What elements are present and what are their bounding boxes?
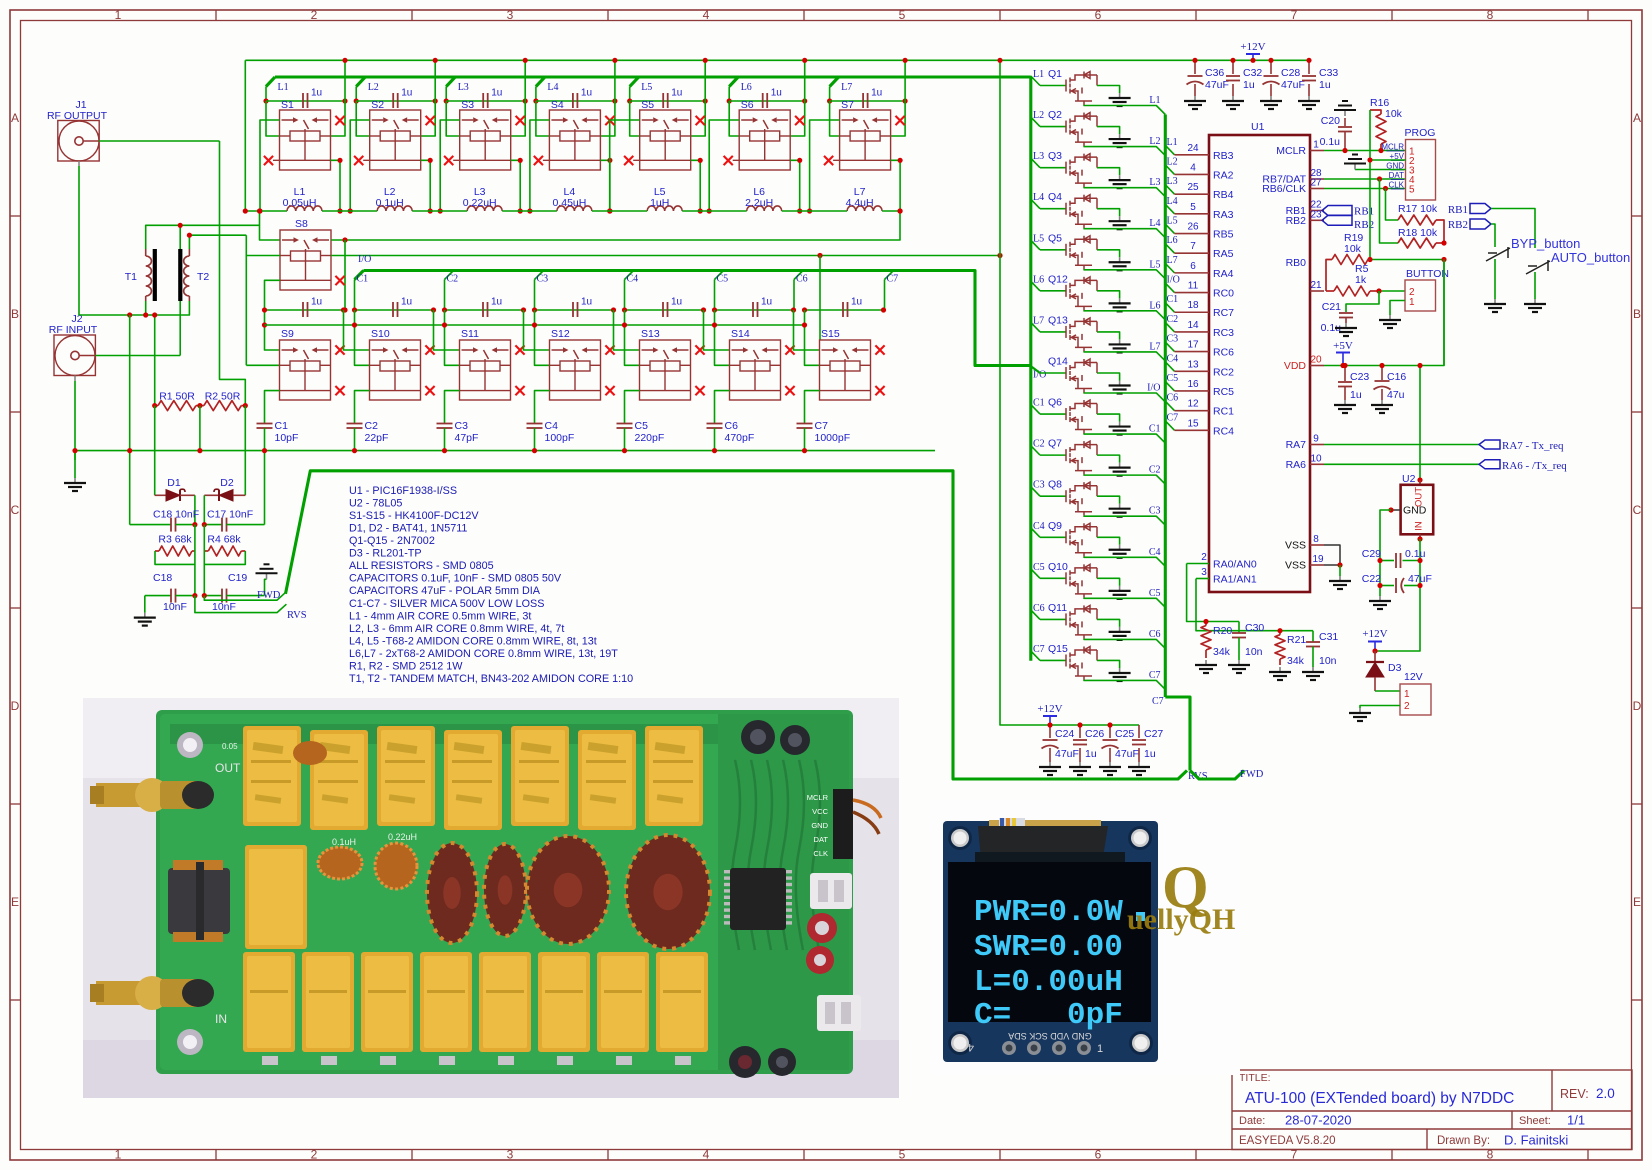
wire gate feed Q15 [1040,659,1066,661]
wire Q2 source to bus diagonal [1084,146,1165,156]
junction C20 on MCLR [1342,148,1347,153]
transformer T2 [180,249,189,301]
photo of PCB board [83,698,899,1098]
svg-text:AUTO_button: AUTO_button [1551,250,1630,265]
capacitor C18 10nF upper [130,518,195,532]
svg-text:I/O: I/O [358,254,371,265]
junction at 1u row x345 [342,307,347,312]
svg-text:1k: 1k [1355,274,1367,286]
wire +5V column from R16 top down to R19 row [1369,110,1371,260]
svg-text:1u: 1u [1085,748,1097,760]
svg-text:IN: IN [1414,521,1425,531]
wire J1 shield stub [78,161,80,166]
inductor L7 4.4uH [847,206,882,211]
junction inductor rail left S7 [807,208,812,213]
svg-text:RA5: RA5 [1213,248,1234,260]
wire gate feed Q3 [1040,167,1066,169]
junction U2 IN [1417,536,1422,541]
svg-text:R18 10k: R18 10k [1398,227,1438,239]
svg-text:L2: L2 [1167,156,1178,167]
svg-text:10n: 10n [1245,646,1263,658]
svg-text:D1, D2 - BAT41, 1N5711: D1, D2 - BAT41, 1N5711 [349,523,467,535]
wire riser R1 left down to D1 [154,315,156,406]
svg-text:0.45uH: 0.45uH [552,197,586,209]
wire gate feed Q12 [1040,290,1066,292]
junction inductor rail right S6 [797,208,802,213]
svg-text:1/1: 1/1 [1567,1113,1585,1128]
wire diagonal bus to pin 25 [1165,185,1174,195]
ground at 12V connector [1349,708,1371,721]
svg-text:RC3: RC3 [1213,327,1234,339]
svg-text:1: 1 [1404,689,1410,700]
capacitor 1u at S10 [393,302,398,317]
svg-text:RB3: RB3 [1213,150,1234,162]
capacitor C32 1u [1226,60,1240,96]
wire riser J2 line to node A [179,225,181,355]
net flag C5 diagonal [715,271,724,280]
ground at Q10 [1109,586,1131,599]
svg-text:I/O: I/O [1167,275,1180,286]
capacitor C4 100pF [527,424,543,429]
svg-text:RA0/AN0: RA0/AN0 [1213,559,1257,571]
junction inductor rail left S1 [257,208,262,213]
ground at C28 [1260,96,1282,109]
relay S10 [370,340,421,400]
svg-text:RC1: RC1 [1213,406,1234,418]
wire +12V column from top rail down to bank [1000,60,1139,725]
svg-text:6: 6 [1095,8,1102,22]
no-connect X right bottom S14 [785,386,794,395]
wire coil feed riser S11 [445,310,460,365]
wire R4 node down [203,525,205,601]
junction 1u left S10 [352,307,357,312]
wire C17 right riser from rail [264,451,266,525]
transistor Q6 2N7002 [1066,400,1097,434]
wire L-bus vertical down gate column [1029,77,1032,661]
wire +12V riser at S3 [511,60,526,136]
svg-text:RB1: RB1 [1354,206,1374,218]
svg-text:1u: 1u [311,297,322,308]
port flag RA7 - Tx_req [1479,440,1500,449]
svg-text:S5: S5 [641,99,654,111]
wire diagonal bus to pin 5 [1165,204,1174,214]
transistor Q4 2N7002 [1066,195,1097,229]
svg-text:C1: C1 [1149,424,1161,435]
relay S5 [633,110,691,170]
frame column numbers bottom [115,1148,1494,1162]
svg-text:D3 - RL201-TP: D3 - RL201-TP [349,548,422,560]
junction C6 on ground rail [712,448,717,453]
wire FWD stub and flag [204,592,286,601]
svg-text:47uF: 47uF [1115,748,1139,760]
svg-text:U2 - 78L05: U2 - 78L05 [349,498,402,510]
wire L-net bus thick [275,75,1031,78]
svg-text:C32: C32 [1243,67,1262,79]
inductor L4 0.45uH [557,206,592,211]
transistor Q12 2N7002 [1066,277,1097,311]
no-connect X right of contact S7 [896,116,905,125]
ground at C23 [1334,400,1356,413]
svg-text:C4: C4 [1033,521,1045,532]
relay S13 [640,340,691,400]
svg-text:L1 - 4mm AIR CORE 0.5mm WIRE,: L1 - 4mm AIR CORE 0.5mm WIRE, 3t [349,610,531,622]
svg-text:1u: 1u [1350,389,1362,401]
wire +12V riser at S1 [331,60,346,136]
pin 6 RA4 wire [1175,272,1210,274]
resistor R21 34k [1275,631,1285,665]
wire inductor rail segments [245,210,900,212]
svg-text:3: 3 [1201,567,1207,578]
wire Q2 to ground [1097,127,1120,135]
svg-text:0.1uH: 0.1uH [376,197,404,209]
svg-text:5: 5 [1190,202,1196,213]
junction C24 [1047,722,1052,727]
ground at C26 [1069,762,1091,775]
junction C33 on rail [1306,58,1311,63]
wire gate diagonal Q9 [1031,528,1040,538]
net flag C1 diagonal [355,271,364,280]
svg-text:L4, L5 -T68-2 AMIDON CORE 0.8m: L4, L5 -T68-2 AMIDON CORE 0.8mm WIRE, 8t… [349,635,597,647]
wire D2 anode down [203,495,205,524]
capacitor 1u at S12 [573,302,578,317]
capacitor C18 10nF lower [145,589,195,603]
connector 12V [1400,684,1431,715]
svg-text:0.05uH: 0.05uH [283,197,317,209]
wire I/O bus diagonal into Q14 gate [1030,366,1040,373]
svg-text:S9: S9 [281,328,294,340]
wire gate diagonal Q6 [1031,405,1040,415]
svg-text:C33: C33 [1319,67,1338,79]
transistor Q9 2N7002 [1066,523,1097,557]
svg-text:T1: T1 [125,271,137,283]
wire coil left feed S4 [536,101,550,136]
wire 1u row S1 [266,100,345,102]
transistor Q1 2N7002 [1066,72,1097,106]
wire Q14 source to bus diagonal [1084,392,1165,402]
relay S14 [730,340,781,400]
svg-text:C7: C7 [1152,696,1164,707]
resistor R3 68k [155,546,195,564]
frame row ticks right [1632,216,1643,1000]
wire gate feed Q1 [1040,85,1066,87]
svg-text:D1: D1 [167,477,181,489]
wire gate feed Q10 [1040,577,1066,579]
wire RA6 to flag [1324,463,1479,465]
svg-text:4.4uH: 4.4uH [846,197,874,209]
svg-text:A: A [11,111,19,125]
capacitor 1u at S2 [393,93,398,108]
switch AUTO_button [1526,260,1550,274]
pin 20 VDD wire [1310,365,1324,367]
svg-text:D. Fainitski: D. Fainitski [1504,1133,1568,1148]
wire S12 bottom to capacitor C4 [535,391,550,423]
pin 9 RA7 wire [1310,444,1324,446]
capacitor 1u at S4 [573,93,578,108]
junction +12V D3 [1372,648,1377,653]
wire PROG GND pin [1355,169,1406,171]
junction coil riser on rail S12 [532,322,537,327]
svg-text:C3: C3 [455,420,469,432]
wire 1u row S9 [265,309,344,311]
wire Q13 source to bus diagonal [1084,351,1165,361]
no-connect X right of contact S2 [426,116,435,125]
wire diagonal bus to pin 16 [1165,381,1174,391]
net flag C6 diagonal [794,271,803,280]
svg-text:OUT: OUT [215,761,241,775]
no-connect X right bottom S15 [875,386,884,395]
junction C26 [1077,722,1082,727]
wire U2 IN stub [1419,534,1421,539]
svg-text:47uF: 47uF [1055,748,1079,760]
svg-text:VSS: VSS [1285,540,1306,552]
no-connect X right bottom S8 [335,276,344,285]
junction R16 bottom on MCLR [1378,148,1383,153]
svg-text:C4: C4 [627,274,639,285]
wire RA0 net down to R20 rail [1187,564,1239,622]
svg-text:Q14: Q14 [1048,355,1068,367]
svg-text:5: 5 [1409,185,1415,196]
svg-text:C21: C21 [1322,301,1341,313]
svg-text:L5: L5 [1033,233,1044,244]
wire Q4 to ground [1097,209,1120,217]
wire RVS stub and flag [195,596,287,613]
wire ground rail left end to J2 shield [74,451,76,460]
junction C28 on rail [1268,58,1273,63]
net flag C4 diagonal [625,271,634,280]
capacitor C5 220pF [617,424,633,429]
junction R20 top [1203,619,1208,624]
transistor Q3 2N7002 [1066,154,1097,188]
svg-text:C5: C5 [1033,562,1045,573]
wire coil feed riser S10 [355,310,370,365]
svg-text:D: D [1633,699,1642,713]
svg-text:C36: C36 [1205,67,1224,79]
wire S8 coil feed from node B [246,255,280,257]
svg-text:C5: C5 [1149,588,1161,599]
wire gate diagonal Q4 [1031,199,1040,209]
junction C16 [1379,363,1384,368]
svg-text:L2, L3 - 6mm AIR CORE 0.8mm WI: L2, L3 - 6mm AIR CORE 0.8mm WIRE, 4t, 7t [349,623,564,635]
wire 1u row S7 [830,100,906,102]
inductor L5 1uH [647,206,682,211]
capacitor 1u at S6 [763,93,768,108]
svg-text:47u: 47u [1387,389,1405,401]
power flag +12V bank [1043,716,1057,725]
svg-text:10nF: 10nF [212,601,236,613]
junction 1u right S3 [523,98,528,103]
svg-text:SWR=0.00: SWR=0.00 [974,930,1123,965]
svg-text:C28: C28 [1281,67,1300,79]
wire bottom exit S2 [421,160,431,211]
capacitor C20 0.1u [1338,118,1352,151]
svg-text:RC5: RC5 [1213,386,1234,398]
svg-text:100pF: 100pF [545,432,575,444]
svg-text:+12V: +12V [1362,628,1387,640]
pin 11 RC0 wire [1175,292,1210,294]
diode D1 [155,489,195,501]
junction +12V on rail [1250,58,1255,63]
svg-text:4: 4 [703,1148,710,1162]
junction R5 right [1376,288,1381,293]
relay S1 [273,110,331,170]
wire PROG +5V pin to +5V column [1370,159,1406,161]
wire gate diagonal Q8 [1031,487,1040,497]
frame column ticks top [216,10,1588,21]
svg-text:C: C [11,503,20,517]
junction R2 right [243,403,248,408]
inductor L1 0.05uH [287,206,322,211]
transformer T1 [146,249,155,301]
svg-text:T2: T2 [197,271,209,283]
wire gate diagonal Q13 [1031,322,1040,332]
junction bottom exit S1 [337,158,342,163]
svg-text:S10: S10 [371,328,390,340]
svg-text:RA4: RA4 [1213,268,1234,280]
svg-text:L6: L6 [1149,300,1160,311]
svg-text:L4: L4 [547,82,558,93]
net flag L5 diagonal [630,77,639,87]
ground at Q2 [1109,134,1131,147]
svg-text:+12V: +12V [1240,41,1265,53]
wire U2 IN down to +12V elbow [1375,539,1420,651]
junction 1u left S7 [827,98,832,103]
svg-text:C5: C5 [635,420,649,432]
junction C25 [1107,722,1112,727]
junction CLK R18 riser [1383,186,1388,191]
wire diagonal bus to pin 18 [1165,303,1174,313]
frame row letters left [11,111,20,909]
svg-text:C4: C4 [1149,547,1161,558]
svg-text:10k: 10k [1385,108,1403,120]
svg-text:12: 12 [1187,399,1199,410]
svg-text:2: 2 [1201,552,1207,563]
svg-text:FWD: FWD [257,590,281,601]
no-connect X right bottom S10 [425,386,434,395]
wire Q15 to ground [1097,660,1120,668]
svg-text:R21: R21 [1287,634,1306,646]
junction inductor rail terminus [243,208,248,213]
junction C4 on ground rail [532,448,537,453]
pin 26 RB5 wire [1175,233,1210,235]
svg-text:6: 6 [1190,261,1196,272]
svg-text:Q7: Q7 [1048,438,1062,450]
relay S15 [820,340,871,400]
wire L1 flag riser to cap row [265,87,267,102]
wire C7 to ground rail [804,428,806,451]
svg-text:L7: L7 [1033,315,1044,326]
ground at Q8 [1109,504,1131,517]
svg-text:1u: 1u [581,297,592,308]
junction C36 on rail [1192,58,1197,63]
wire branch 820 down to S15 1u row [819,256,821,341]
capacitor C27 1u [1132,725,1146,762]
svg-text:47uF: 47uF [1281,79,1305,91]
ground at Q12 [1109,298,1131,311]
svg-text:L3: L3 [1149,177,1160,188]
wire gate feed Q6 [1040,413,1066,415]
wire riser x130 down [129,315,131,525]
wire L3 flag riser to cap row [445,87,447,102]
wire contact feed riser S6 [709,120,739,211]
wire diagonal bus to pin 7 [1165,244,1174,254]
junction rail riser S4 [612,58,617,63]
svg-text:CAPACITORS 0.1uF, 10nF - SMD 0: CAPACITORS 0.1uF, 10nF - SMD 0805 50V [349,573,562,585]
wire Q12 source to bus diagonal [1084,310,1165,320]
junction 1u left S3 [444,98,449,103]
switch BYP_button [1486,247,1510,261]
svg-text:C4: C4 [1167,353,1179,364]
resistor R1 50R [155,401,200,411]
svg-text:MCLR: MCLR [807,793,829,802]
ground above C19 [256,564,278,579]
wire R3 node down [194,525,196,596]
wire Q1 source to bus diagonal [1084,105,1165,115]
svg-text:C23: C23 [1350,371,1369,383]
svg-text:L3: L3 [1033,151,1044,162]
svg-text:15: 15 [1187,418,1199,429]
pin 13 RC2 wire [1175,370,1210,372]
svg-text:23: 23 [1310,209,1322,220]
capacitor C31 10n [1306,631,1320,667]
svg-text:RB5: RB5 [1213,229,1234,241]
junction inductor rail left S6 [707,208,712,213]
junction rail riser S3 [523,58,528,63]
svg-text:C5: C5 [1167,373,1179,384]
svg-text:4: 4 [968,1041,974,1053]
junction +5V at U2 column [1417,363,1422,368]
svg-text:C6: C6 [725,420,739,432]
svg-text:17: 17 [1187,340,1199,351]
svg-text:RC7: RC7 [1213,307,1234,319]
junction bottom exit S7 [898,158,903,163]
svg-text:1: 1 [115,8,122,22]
net flag C7 diagonal [885,271,894,280]
wire coil left feed S6 [729,101,739,136]
wire R2 right down to D2 [244,406,246,496]
no-connect X right of contact S3 [516,116,525,125]
pin 8 VSS [1310,544,1324,546]
svg-text:14: 14 [1187,320,1199,331]
junction C29 left [1377,558,1382,563]
ground at BUTTON [1379,315,1401,328]
svg-text:28-07-2020: 28-07-2020 [1285,1113,1352,1128]
wire +12V riser at S5 [691,60,706,136]
capacitor 1u at S5 [663,93,668,108]
junction +5V flag [1340,363,1345,368]
junction C5 on ground rail [622,448,627,453]
svg-text:ATU-100 (EXTended board) by N7: ATU-100 (EXTended board) by N7DDC [1245,1090,1514,1107]
svg-text:RF OUTPUT: RF OUTPUT [47,110,108,122]
svg-text:Q10: Q10 [1048,561,1068,573]
svg-text:4: 4 [703,8,710,22]
svg-text:1: 1 [115,1148,122,1162]
resistor R5 1k [1326,286,1379,296]
wire VSS down [1339,565,1341,576]
wire VSS19 stub [1324,564,1340,566]
relay S12 [550,340,601,400]
relay S6 [733,110,791,170]
svg-text:Q15: Q15 [1048,643,1068,655]
junction coil riser on rail S11 [442,322,447,327]
svg-text:0.1uH: 0.1uH [332,837,356,847]
wire gate diagonal Q2 [1031,117,1040,127]
svg-text:C6: C6 [1149,629,1161,640]
wire contact feed riser S7 [810,120,840,211]
capacitor C24 47uF [1042,725,1059,762]
capacitor C19 10nF [204,589,264,603]
svg-text:U2: U2 [1402,473,1416,485]
junction coil riser on rail S14 [712,322,717,327]
